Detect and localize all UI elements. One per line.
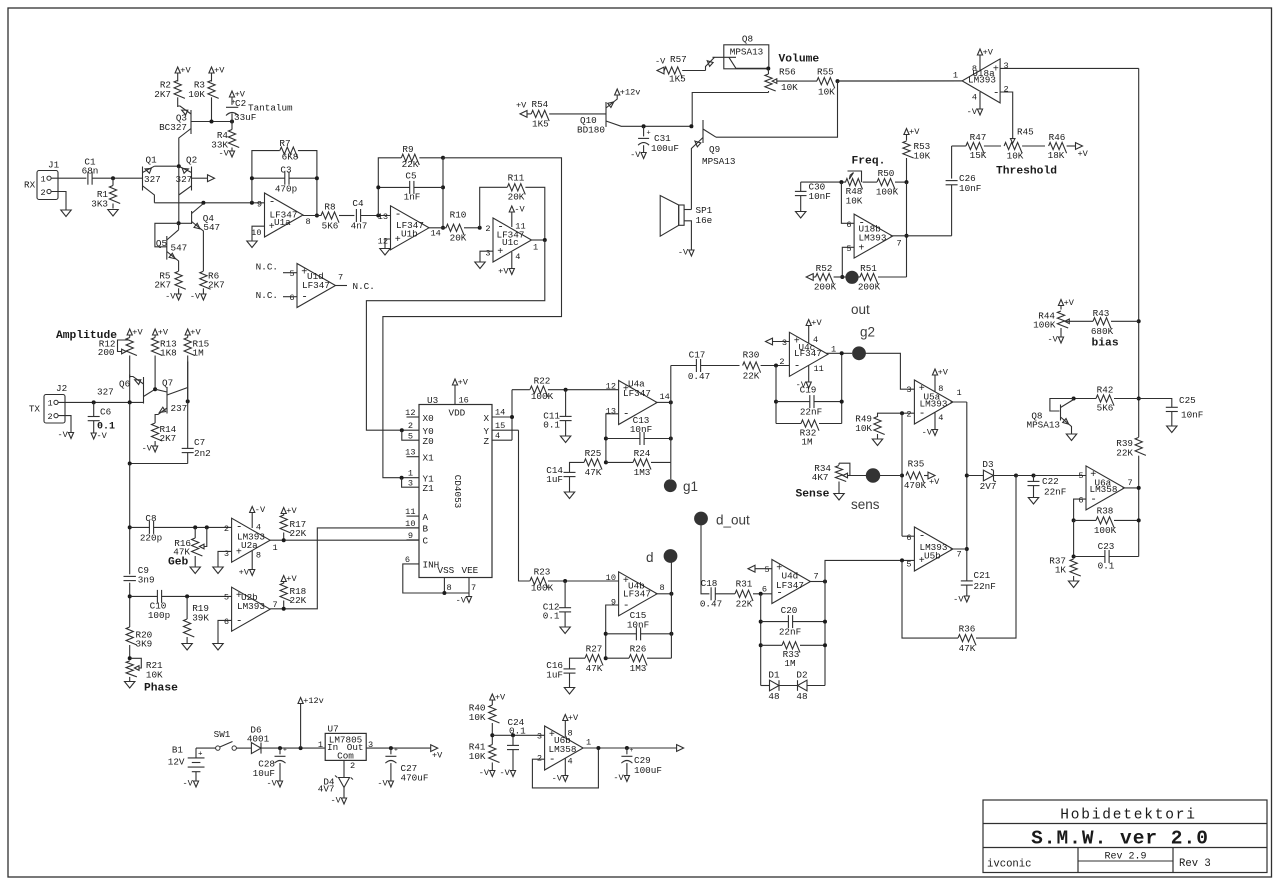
- wire R56 bottom to Q9 base: [692, 93, 768, 127]
- svg-text:Rev 3: Rev 3: [1179, 858, 1211, 870]
- svg-text:9: 9: [257, 200, 262, 210]
- ground: [796, 212, 806, 219]
- svg-text:10K: 10K: [1007, 151, 1024, 162]
- svg-text:2K7: 2K7: [160, 433, 177, 444]
- svg-text:C7: C7: [194, 437, 205, 448]
- node Y1: [400, 476, 404, 480]
- net dot d: [664, 549, 678, 563]
- resistor R51: [858, 276, 860, 278]
- svg-text:2: 2: [41, 188, 46, 198]
- U3 INH pin6 wire: [403, 564, 469, 593]
- wire Q5 base bracket: [155, 223, 179, 247]
- svg-text:2: 2: [350, 761, 355, 771]
- U2a pin4 to -V: [251, 513, 253, 529]
- svg-text:R57: R57: [670, 54, 687, 65]
- svg-text:6: 6: [762, 585, 767, 595]
- wire U4b output: [656, 593, 672, 595]
- wire C30 to R48: [801, 181, 846, 183]
- U1d pin6 stub: [283, 296, 297, 298]
- svg-text:0.47: 0.47: [700, 599, 722, 610]
- resistor R57: [657, 67, 664, 74]
- svg-text:Q9: Q9: [709, 144, 720, 155]
- svg-text:8: 8: [447, 583, 452, 593]
- capacitor C15: [606, 633, 637, 635]
- svg-text:X0: X0: [423, 413, 434, 424]
- diodes D1 D2 anti-parallel: [761, 685, 770, 687]
- wire U1c output to mux Y0 loop: [366, 240, 544, 430]
- svg-text:3: 3: [1004, 61, 1009, 71]
- svg-text:10nF: 10nF: [959, 183, 981, 194]
- svg-text:LM393: LM393: [859, 233, 887, 244]
- U1d pin5 stub: [283, 272, 297, 274]
- svg-text:9: 9: [408, 531, 413, 541]
- node C12: [563, 579, 567, 583]
- svg-text:3K9: 3K9: [136, 639, 153, 650]
- svg-text:-V: -V: [613, 773, 624, 783]
- power -V: [193, 781, 198, 787]
- capacitor C14: [570, 462, 585, 472]
- battery B1: [188, 757, 205, 759]
- svg-text:14: 14: [495, 408, 505, 418]
- svg-text:CD4053: CD4053: [452, 475, 463, 508]
- capacitor C10: [130, 595, 158, 597]
- svg-text:-V: -V: [330, 796, 341, 806]
- svg-text:10: 10: [606, 573, 616, 583]
- svg-text:Q6: Q6: [119, 379, 130, 390]
- diode D6 4001: [251, 743, 261, 754]
- resistor R13: [153, 329, 158, 335]
- ground: [564, 688, 574, 695]
- wire U2a output to mux C: [270, 539, 419, 541]
- svg-text:Z0: Z0: [423, 436, 434, 447]
- svg-text:4: 4: [938, 413, 943, 423]
- svg-text:X: X: [484, 413, 490, 424]
- svg-text:22K: 22K: [402, 159, 419, 170]
- capacitor C18: [710, 587, 712, 600]
- node D3 out: [1014, 474, 1018, 478]
- resistor R52: [806, 274, 813, 281]
- wire J2 pin2 to -V: [58, 416, 71, 433]
- svg-text:8: 8: [256, 551, 261, 561]
- op-amp U1b LF347: [391, 206, 430, 250]
- wire U2b output to mux B: [270, 528, 419, 609]
- svg-text:22K: 22K: [290, 528, 307, 539]
- svg-text:1uF: 1uF: [546, 670, 563, 681]
- wire to U6a pin5: [1034, 475, 1087, 477]
- svg-text:Hobidetektori: Hobidetektori: [1060, 808, 1197, 824]
- svg-text:+V: +V: [929, 477, 940, 487]
- svg-text:5: 5: [846, 244, 851, 254]
- resistor R4: [231, 122, 233, 130]
- ground: [247, 241, 257, 248]
- svg-text:4n7: 4n7: [351, 221, 368, 232]
- wire volume node down to Q9 collector: [716, 81, 838, 137]
- wire U7 out to +V: [366, 747, 431, 749]
- svg-text:+V: +V: [286, 506, 297, 516]
- svg-text:-V: -V: [165, 292, 176, 302]
- ground: [1066, 434, 1076, 441]
- node C11: [564, 388, 568, 392]
- svg-text:220p: 220p: [140, 533, 162, 544]
- wire Q3 base to C2: [191, 121, 232, 123]
- op-amp U4a LF347: [619, 381, 658, 425]
- svg-text:1: 1: [953, 71, 958, 81]
- svg-text:+V: +V: [132, 328, 143, 338]
- svg-text:VEE: VEE: [462, 565, 479, 576]
- op-amp U1d LF347 (N.C.): [297, 264, 336, 308]
- U18b output wire: [891, 235, 952, 237]
- svg-text:22K: 22K: [290, 595, 307, 606]
- power -V: [388, 781, 393, 787]
- ground: [1167, 426, 1177, 433]
- op-amp U5b LM393: [914, 527, 953, 571]
- svg-text:10: 10: [251, 228, 261, 238]
- svg-text:+: +: [858, 243, 864, 254]
- node R56 top: [766, 67, 770, 71]
- svg-text:1M: 1M: [784, 658, 795, 669]
- wire U1b output: [429, 227, 446, 229]
- ground: [108, 210, 118, 217]
- power -V: [341, 798, 346, 804]
- svg-text:R26: R26: [630, 644, 647, 655]
- U18b pin5 wire: [842, 247, 854, 277]
- svg-text:-V: -V: [456, 596, 467, 606]
- svg-text:-V: -V: [190, 292, 201, 302]
- svg-text:2: 2: [224, 524, 229, 534]
- svg-text:8: 8: [568, 729, 573, 739]
- transistor Q8 MPSA13 with box: [724, 45, 769, 69]
- resistor R23: [530, 577, 548, 588]
- svg-text:6: 6: [846, 220, 851, 230]
- net dot g1: [670, 462, 672, 479]
- svg-text:14: 14: [431, 229, 441, 239]
- svg-text:11: 11: [515, 222, 525, 232]
- wire Y to R23: [519, 430, 530, 581]
- svg-text:R55: R55: [817, 67, 834, 78]
- svg-text:-V: -V: [182, 779, 193, 789]
- capacitor C8: [130, 526, 150, 528]
- svg-text:6: 6: [405, 555, 410, 565]
- svg-text:+: +: [283, 747, 287, 754]
- U3 pin7 VEE to -V: [468, 578, 470, 597]
- svg-text:1M: 1M: [801, 437, 812, 448]
- svg-text:C17: C17: [689, 350, 706, 361]
- svg-text:R27: R27: [586, 644, 603, 655]
- op-amp U2a LM393: [232, 518, 271, 562]
- svg-text:10K: 10K: [469, 751, 486, 762]
- svg-text:470p: 470p: [275, 184, 297, 195]
- svg-text:-: -: [236, 615, 243, 627]
- svg-text:-: -: [549, 754, 556, 766]
- svg-text:LF347: LF347: [794, 348, 822, 359]
- svg-text:2: 2: [1004, 85, 1009, 95]
- svg-text:6K8: 6K8: [282, 152, 299, 163]
- U1c pin11 to -V: [511, 212, 513, 227]
- left rail continues: [129, 583, 131, 627]
- svg-text:LF347: LF347: [776, 580, 804, 591]
- svg-text:22K: 22K: [1116, 448, 1133, 459]
- capacitor C24: [512, 735, 514, 745]
- svg-text:2: 2: [779, 357, 784, 367]
- node U1c pin2: [478, 226, 482, 230]
- wire Q2 base to output flag: [192, 177, 208, 179]
- svg-text:U2a: U2a: [241, 540, 258, 551]
- svg-text:+V: +V: [811, 318, 822, 328]
- svg-text:Z1: Z1: [423, 483, 435, 494]
- wire feedback right vertical: [442, 158, 444, 228]
- switch SW1: [196, 747, 216, 749]
- svg-text:547: 547: [171, 243, 188, 254]
- svg-text:8: 8: [972, 64, 977, 74]
- svg-text:1: 1: [41, 175, 46, 185]
- svg-text:U1a: U1a: [274, 217, 291, 228]
- power -V: [689, 250, 694, 256]
- svg-text:Sense: Sense: [796, 489, 830, 501]
- svg-text:3: 3: [782, 338, 787, 348]
- svg-text:+: +: [198, 751, 203, 759]
- svg-text:1K5: 1K5: [669, 74, 686, 85]
- svg-text:237: 237: [171, 403, 188, 414]
- U4c -V: [808, 365, 810, 382]
- capacitor C4: [355, 209, 357, 222]
- resistor R1: [112, 178, 114, 185]
- ground: [560, 627, 570, 634]
- U3 pin8 VSS: [443, 578, 445, 594]
- svg-text:7: 7: [1128, 478, 1133, 488]
- svg-text:12: 12: [606, 382, 616, 392]
- wire U4c output: [827, 352, 853, 354]
- svg-text:N.C.: N.C.: [256, 290, 278, 301]
- node Q9 base: [689, 124, 693, 128]
- svg-text:+: +: [630, 747, 634, 754]
- svg-text:LM393: LM393: [920, 398, 948, 409]
- svg-text:10K: 10K: [781, 82, 798, 93]
- svg-text:R10: R10: [450, 210, 467, 221]
- node C10: [128, 594, 132, 598]
- svg-text:C23: C23: [1098, 541, 1115, 552]
- node U1b input: [376, 214, 380, 218]
- wire J1 pin2 to ground: [51, 192, 66, 211]
- resistor R3: [211, 73, 213, 82]
- svg-text:LM393: LM393: [237, 601, 265, 612]
- svg-text:48: 48: [796, 691, 807, 702]
- transistor Q9 MPSA13: [702, 120, 704, 143]
- power -V: [964, 596, 969, 602]
- potentiometer R21: [128, 656, 132, 660]
- resistor R33: [761, 644, 782, 646]
- svg-text:R54: R54: [532, 99, 549, 110]
- ground: [213, 567, 223, 574]
- wire U1a pin10 to ground: [252, 226, 265, 240]
- U18a +V: [979, 55, 981, 70]
- svg-text:18K: 18K: [1048, 150, 1065, 161]
- power -V: [624, 776, 629, 782]
- svg-text:470uF: 470uF: [401, 773, 429, 784]
- svg-text:Q8: Q8: [742, 34, 753, 45]
- resistor R55: [817, 78, 835, 89]
- U1d output stub: [336, 285, 348, 287]
- svg-text:1uF: 1uF: [546, 474, 563, 485]
- svg-text:0.47: 0.47: [688, 371, 710, 382]
- node R40/R41: [490, 733, 494, 737]
- svg-text:C3: C3: [280, 165, 291, 176]
- svg-text:Volume: Volume: [779, 54, 820, 66]
- svg-text:R22: R22: [534, 376, 551, 387]
- svg-text:2V7: 2V7: [980, 481, 997, 492]
- svg-text:547: 547: [203, 222, 220, 233]
- svg-text:2: 2: [48, 412, 53, 422]
- svg-text:5K6: 5K6: [1097, 403, 1114, 414]
- svg-text:1: 1: [957, 388, 962, 398]
- svg-text:R46: R46: [1049, 132, 1066, 143]
- U5a +V: [934, 375, 936, 392]
- U2a pin8 to +V: [251, 551, 253, 570]
- svg-text:C2: C2: [235, 98, 246, 109]
- net dot sens: [866, 468, 880, 482]
- U4b feedback leg: [606, 605, 619, 658]
- svg-text:out: out: [851, 302, 870, 317]
- svg-text:10K: 10K: [855, 423, 872, 434]
- svg-text:2K7: 2K7: [154, 280, 171, 291]
- node Y0: [400, 428, 404, 432]
- power -V: [176, 294, 181, 300]
- svg-text:R24: R24: [634, 448, 651, 459]
- svg-text:R9: R9: [402, 144, 413, 155]
- svg-text:8: 8: [660, 583, 665, 593]
- svg-text:13: 13: [378, 212, 388, 222]
- capacitor C17: [671, 365, 697, 367]
- ground: [380, 249, 390, 256]
- svg-text:Z: Z: [484, 436, 490, 447]
- svg-text:9: 9: [611, 598, 616, 608]
- svg-text:7: 7: [957, 550, 962, 560]
- wire wiper to sens dot: [850, 475, 902, 477]
- node R55 right: [836, 79, 840, 83]
- svg-text:LF347: LF347: [623, 589, 651, 600]
- svg-text:2K7: 2K7: [154, 89, 171, 100]
- capacitor C2 tantalum: [231, 97, 233, 105]
- potentiometer R56 volume: [767, 69, 769, 75]
- svg-text:100K: 100K: [531, 391, 554, 402]
- svg-text:R38: R38: [1097, 506, 1114, 517]
- svg-text:4: 4: [256, 523, 261, 533]
- transistor Q2 327: [191, 167, 193, 191]
- power -V: [229, 151, 234, 157]
- U4a feedback leg: [606, 414, 619, 463]
- resistor R24: [606, 461, 633, 463]
- svg-text:-V: -V: [1047, 335, 1058, 345]
- svg-text:10nF: 10nF: [809, 191, 831, 202]
- node U1a output: [315, 214, 319, 218]
- svg-text:10K: 10K: [846, 196, 863, 207]
- svg-text:C: C: [423, 536, 429, 547]
- svg-text:-V: -V: [266, 779, 277, 789]
- svg-text:B: B: [423, 524, 429, 535]
- svg-text:2: 2: [485, 224, 490, 234]
- svg-text:LF347: LF347: [302, 280, 330, 291]
- op-amp U1a LF347: [265, 193, 304, 237]
- svg-text:2K7: 2K7: [208, 280, 225, 291]
- svg-text:D3: D3: [982, 459, 993, 470]
- svg-text:7: 7: [471, 583, 476, 593]
- svg-text:+12v: +12v: [303, 696, 324, 706]
- capacitor C22: [1016, 475, 1034, 477]
- op-amp U5a LM393: [914, 380, 953, 424]
- net dot d_out: [694, 512, 708, 526]
- svg-text:-V: -V: [97, 431, 108, 441]
- svg-text:10nF: 10nF: [630, 424, 652, 435]
- resistor R41: [491, 735, 493, 744]
- node Q7 base: [153, 387, 157, 391]
- resistor R2: [177, 73, 179, 82]
- capacitor C25: [1139, 399, 1172, 408]
- svg-text:10nF: 10nF: [627, 619, 649, 630]
- svg-text:g1: g1: [683, 479, 698, 494]
- capacitor C7: [182, 447, 194, 449]
- ground: [61, 210, 71, 217]
- ground: [872, 439, 882, 446]
- svg-text:680K: 680K: [1091, 326, 1114, 337]
- svg-text:bias: bias: [1092, 338, 1119, 350]
- ground: [182, 644, 192, 651]
- svg-text:5K6: 5K6: [322, 221, 339, 232]
- svg-text:R50: R50: [878, 168, 895, 179]
- capacitor C31: [643, 126, 645, 136]
- svg-text:2n2: 2n2: [194, 448, 211, 459]
- zener D3: [967, 475, 984, 477]
- left rail down: [129, 464, 131, 575]
- svg-text:4: 4: [972, 93, 977, 103]
- svg-text:7: 7: [897, 239, 902, 249]
- op-amp U18a LM393 (points left): [962, 59, 1000, 103]
- wire U1b pin12 to ground: [385, 239, 391, 248]
- svg-text:Q2: Q2: [186, 155, 197, 166]
- wire divider to U6b pin3: [492, 734, 544, 736]
- svg-text:+: +: [394, 747, 398, 754]
- transistor Q3 BC327: [190, 110, 192, 134]
- svg-text:200K: 200K: [858, 282, 881, 293]
- svg-text:4K7: 4K7: [812, 472, 829, 483]
- svg-text:Rev 2.9: Rev 2.9: [1104, 852, 1146, 863]
- title block: [983, 800, 1267, 873]
- U6b feedback loop: [532, 748, 598, 788]
- op-amp U1c LF347: [493, 218, 532, 262]
- svg-text:R52: R52: [816, 263, 833, 274]
- potentiometer R34 Sense: [839, 463, 850, 475]
- svg-text:68n: 68n: [82, 166, 99, 177]
- svg-text:-V: -V: [655, 57, 666, 67]
- svg-text:+: +: [497, 247, 503, 258]
- svg-text:10: 10: [405, 519, 415, 529]
- op-amp U4b LF347: [619, 572, 658, 616]
- resistor R25: [584, 459, 602, 470]
- output flag arrow: [208, 175, 215, 182]
- wire J1 pin1 to C1: [51, 177, 86, 179]
- net dot g2: [852, 346, 866, 360]
- svg-text:-: -: [919, 530, 926, 542]
- svg-text:200: 200: [98, 347, 115, 358]
- U18a -V: [979, 92, 981, 109]
- svg-text:R56: R56: [779, 67, 796, 78]
- svg-text:-: -: [993, 88, 1000, 100]
- resistor R37: [1070, 559, 1081, 576]
- node R3: [210, 120, 214, 124]
- resistor R53: [904, 129, 909, 135]
- svg-text:R42: R42: [1097, 385, 1114, 396]
- svg-text:J2: J2: [56, 383, 67, 394]
- wire U1c pin3 to ground: [480, 251, 493, 261]
- U4c feedback C19: [775, 366, 777, 424]
